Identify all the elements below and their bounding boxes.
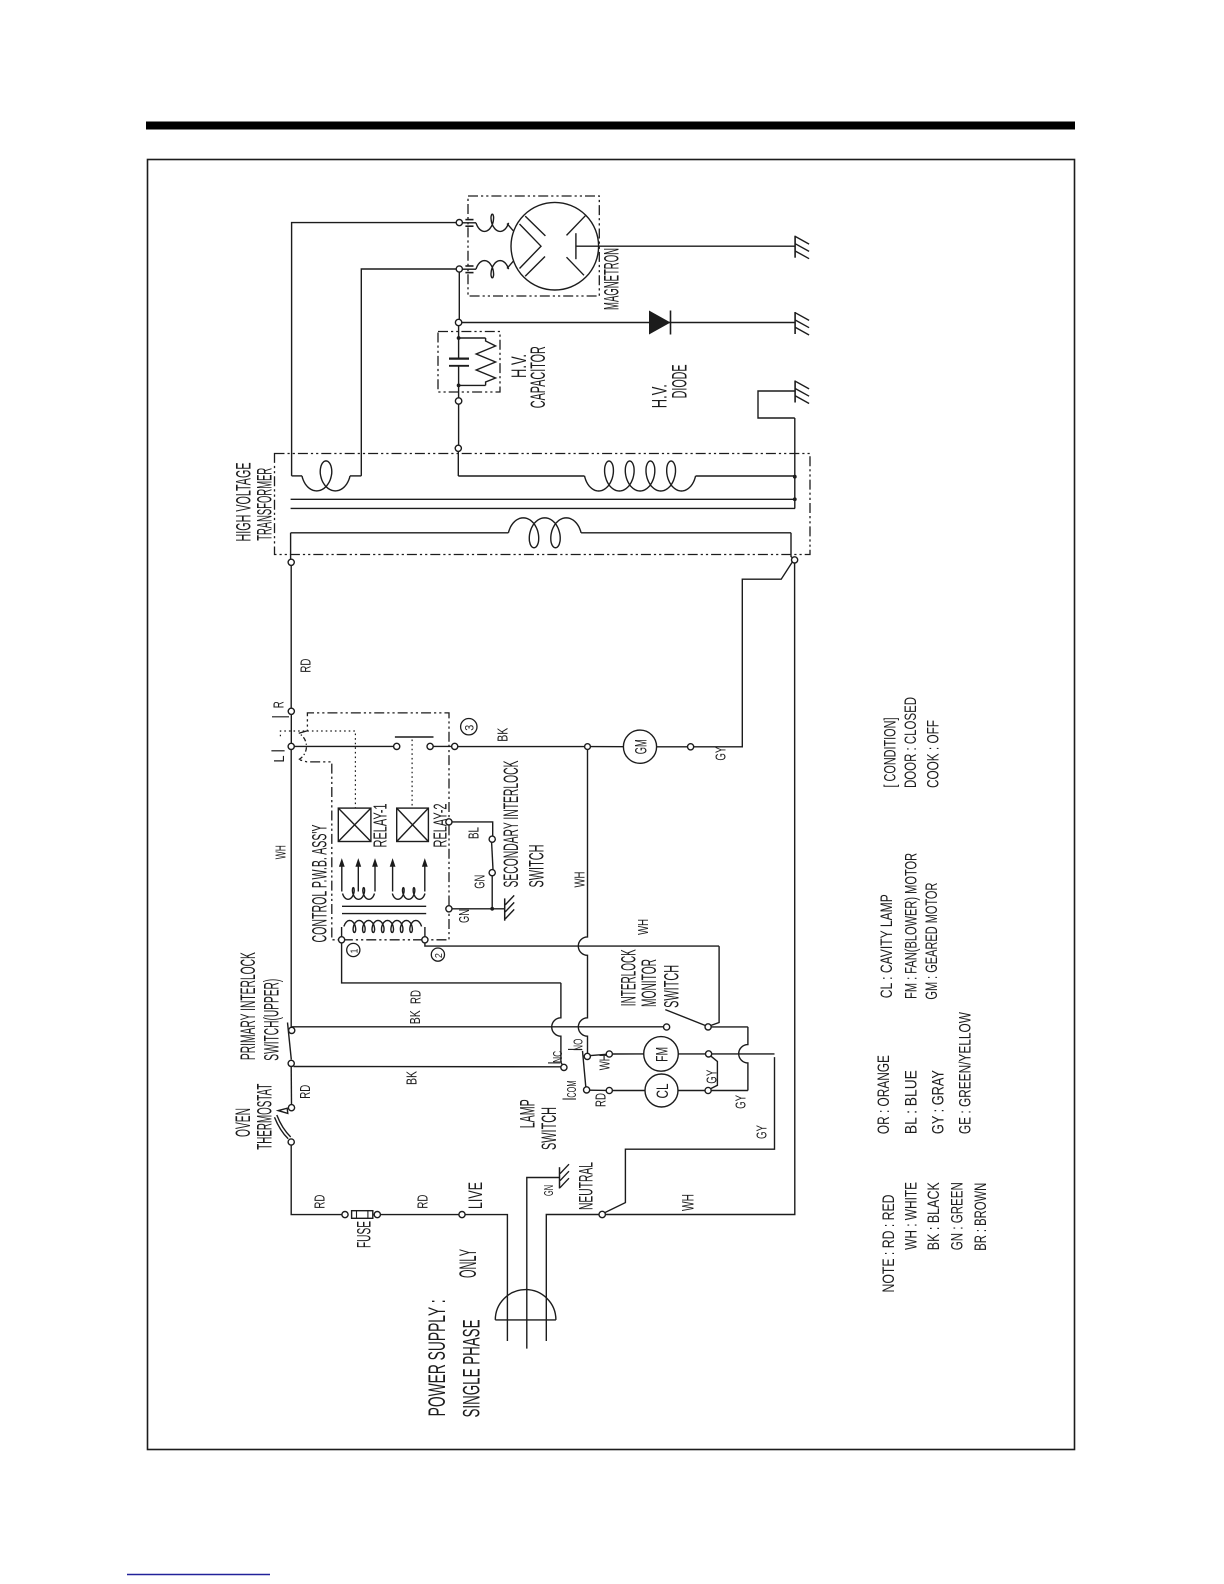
svg-text:HIGH VOLTAGE: HIGH VOLTAGE: [233, 463, 256, 542]
terminal 2 circle: [422, 937, 428, 943]
relay-1 dotted control line: [280, 731, 355, 808]
fan motor FM: [644, 1037, 679, 1072]
svg-text:WH: WH: [273, 845, 290, 859]
svg-text:MAGNETRON: MAGNETRON: [601, 248, 624, 310]
secondary interlock contact bottom: [489, 870, 495, 876]
relay R2 box: [397, 808, 429, 841]
svg-text:1: 1: [349, 948, 360, 953]
svg-text:BL: BL: [465, 827, 482, 839]
svg-text:SWITCH(UPPER): SWITCH(UPPER): [261, 979, 284, 1061]
svg-text:PRIMARY INTERLOCK: PRIMARY INTERLOCK: [237, 952, 260, 1060]
NEUTRAL node circle: [599, 1211, 605, 1217]
junction node (WH drop): [585, 744, 591, 750]
svg-text:BK: BK: [495, 728, 512, 742]
svg-text:THERMOSTAT: THERMOSTAT: [254, 1084, 277, 1150]
svg-text:GM: GM: [631, 739, 650, 754]
interlock monitor contact right: [705, 1024, 711, 1030]
BK line 1 (upper contact to interlock monitor): [291, 1026, 663, 1028]
wire thermostat to LIVE line: [291, 1145, 342, 1215]
CL terminal circle left: [606, 1087, 612, 1093]
BL wire: [452, 822, 493, 836]
primary right terminal wire: [791, 533, 793, 558]
svg-text:RD: RD: [311, 1194, 328, 1208]
primary interlock contact top: [289, 1027, 295, 1033]
H.V. diode symbol: [649, 311, 671, 335]
svg-text:WH: WH: [679, 1194, 698, 1211]
secondary 2 arrows: [392, 866, 394, 892]
svg-text:RD: RD: [298, 658, 315, 672]
svg-text:[ CONDITION]: [ CONDITION]: [881, 718, 900, 788]
CL wire right: [678, 1090, 705, 1092]
wire F1 to transformer filament winding: [292, 223, 457, 454]
ground (magnetron antenna): [794, 236, 796, 258]
RD wire from terminal 1: [342, 943, 561, 983]
ground (diode): [794, 312, 796, 334]
svg-text:RELAY-2: RELAY-2: [431, 804, 451, 848]
neutral diagonal to FM return: [605, 1057, 775, 1213]
circled 3 label: [461, 719, 477, 735]
wire L to relay contact: [294, 745, 393, 747]
FM wire right: [678, 1053, 705, 1055]
thermostat blade arcs: [277, 1115, 291, 1137]
svg-text:GM : GEARED MOTOR: GM : GEARED MOTOR: [922, 883, 941, 1000]
NEUTRAL wire left: [546, 1215, 599, 1342]
GN wire to ground: [452, 908, 505, 910]
svg-text:WH: WH: [635, 919, 652, 935]
cavity lamp CL: [645, 1074, 678, 1107]
capacitor plates: [458, 338, 460, 359]
control transformer primary coil: [341, 927, 343, 937]
svg-text:RD: RD: [297, 1085, 314, 1099]
interlock monitor drop with hop over FM: [739, 1027, 748, 1091]
svg-text:TRANSFORMER: TRANSFORMER: [254, 468, 277, 541]
FM wire left: [612, 1053, 643, 1055]
wire R to L: [290, 714, 292, 743]
wire F2 horizontal to transformer: [361, 269, 456, 476]
svg-text:LAMP: LAMP: [517, 1099, 540, 1128]
svg-text:GN: GN: [456, 909, 473, 923]
CL wire left: [612, 1090, 645, 1092]
magnetron filament choke L2: [462, 268, 476, 270]
control transformer secondary 2 coil: [392, 888, 425, 900]
wire L down to primary interlock: [290, 750, 292, 1028]
svg-text:COOK : OFF: COOK : OFF: [924, 720, 943, 788]
svg-text:CL: CL: [653, 1084, 672, 1099]
circled 2 label: [431, 948, 444, 961]
CL wire to interlock monitor drop: [711, 1090, 748, 1092]
label COM: [563, 1098, 577, 1100]
svg-text:GY: GY: [713, 747, 730, 761]
svg-text:RD: RD: [407, 990, 424, 1004]
svg-text:SWITCH: SWITCH: [538, 1107, 561, 1150]
magnetron cathode: [575, 233, 577, 259]
WH drop to interlock monitor: [710, 946, 719, 1026]
footer rule: [127, 1574, 270, 1576]
ground (transformer): [794, 381, 796, 403]
relay R1 box: [338, 808, 371, 841]
interlock monitor contact left: [664, 1024, 670, 1030]
svg-text:BK: BK: [407, 1010, 424, 1024]
secondary interlock blade: [492, 842, 493, 869]
magnetron box (dash-dot): [468, 196, 599, 296]
svg-text:OR : ORANGE: OR : ORANGE: [874, 1055, 893, 1134]
terminal BL circle on box edge: [446, 819, 452, 825]
svg-text:FM: FM: [652, 1047, 671, 1062]
ground (mains earth): [559, 1167, 561, 1188]
svg-text:GY: GY: [754, 1125, 771, 1139]
svg-text:RD: RD: [414, 1194, 431, 1208]
fuse body: [352, 1211, 373, 1219]
schematic border frame: [148, 160, 1075, 1450]
lamp NO contact: [584, 1053, 590, 1059]
relay contact circle right: [427, 743, 433, 749]
FM terminal circle right: [706, 1051, 712, 1057]
svg-text:FM : FAN(BLOWER) MOTOR: FM : FAN(BLOWER) MOTOR: [902, 853, 921, 999]
transformer filament winding: [291, 454, 293, 476]
svg-text:2: 2: [434, 953, 445, 958]
svg-text:NC: NC: [550, 1051, 565, 1063]
interlock monitor blade: [665, 1010, 705, 1026]
svg-text:L: L: [271, 756, 288, 763]
ground (transformer) feed: [794, 418, 796, 508]
bleeder resistor link bottom: [459, 384, 486, 386]
fuse terminal right: [374, 1212, 380, 1218]
primary interlock contact bottom: [288, 1060, 294, 1066]
wire interlock to thermostat: [290, 1067, 292, 1105]
transformer core lines: [291, 498, 795, 500]
svg-text:SINGLE PHASE: SINGLE PHASE: [458, 1320, 485, 1418]
diode wire: [462, 322, 795, 324]
svg-text:BL : BLUE: BL : BLUE: [901, 1070, 920, 1134]
svg-text:BK: BK: [404, 1071, 421, 1085]
FM jog to CL line: [711, 1056, 718, 1088]
svg-text:DIODE: DIODE: [669, 364, 692, 398]
svg-text:GN: GN: [472, 875, 489, 889]
svg-text:RELAY-1: RELAY-1: [371, 804, 391, 848]
oven thermostat contact bottom: [288, 1139, 294, 1145]
circled 1 label: [347, 943, 360, 956]
wire primary-left down to R terminal: [290, 565, 292, 708]
svg-text:FUSE: FUSE: [355, 1221, 376, 1248]
COM to CL wire: [590, 1089, 607, 1091]
wire GM right: [657, 746, 688, 748]
relay-2 dashed actuator line: [411, 740, 413, 809]
bleeder resistor link top: [457, 336, 461, 340]
svg-text:SWITCH: SWITCH: [526, 845, 549, 888]
svg-text:BR : BROWN: BR : BROWN: [971, 1183, 990, 1251]
FM wire to GY bus: [712, 1053, 775, 1055]
control transformer core: [342, 905, 426, 907]
lamp NC contact: [561, 1064, 567, 1070]
svg-text:POWER SUPPLY :: POWER SUPPLY :: [424, 1299, 451, 1416]
terminal R: [288, 708, 294, 714]
svg-text:CAPACITOR: CAPACITOR: [527, 346, 550, 408]
FM terminal circle left: [606, 1051, 612, 1057]
terminal 1 circle: [339, 937, 345, 943]
svg-text:COM: COM: [564, 1081, 579, 1098]
terminal L (node): [288, 743, 294, 749]
NO to FM wire: [590, 1054, 606, 1055]
lamp COM contact: [584, 1087, 590, 1093]
LIVE node circle: [459, 1212, 465, 1218]
relay contact bar: [395, 736, 434, 738]
node C (HV winding tap): [455, 445, 461, 451]
wire to GN junction: [491, 876, 493, 909]
svg-text:SWITCH: SWITCH: [661, 965, 684, 1008]
WH bus (right vertical): [605, 563, 795, 1215]
svg-text:LIVE: LIVE: [466, 1182, 487, 1209]
node A (cap top): [455, 319, 461, 325]
svg-text:MONITOR: MONITOR: [638, 959, 661, 1007]
svg-text:CONTROL P.W.B. ASS'Y: CONTROL P.W.B. ASS'Y: [308, 825, 331, 943]
magnetron pole pieces: [520, 224, 542, 269]
svg-text:GY: GY: [733, 1095, 750, 1109]
wire fuse to LIVE node: [380, 1214, 459, 1216]
svg-text:3: 3: [462, 725, 476, 731]
WH wire from terminal 2: [425, 943, 719, 946]
svg-text:NOTE : RD : RED: NOTE : RD : RED: [879, 1195, 898, 1293]
svg-text:GY : GRAY: GY : GRAY: [928, 1070, 947, 1134]
svg-text:NEUTRAL: NEUTRAL: [577, 1162, 598, 1210]
svg-text:CL : CAVITY LAMP: CL : CAVITY LAMP: [877, 894, 896, 998]
primary interlock blade: [288, 1023, 292, 1060]
relay contact circle left: [394, 743, 400, 749]
GM terminal circle: [688, 744, 694, 750]
wire node A into cap: [458, 326, 460, 338]
control PWB box (dash-dot with notch): [299, 713, 449, 940]
svg-text:WH: WH: [572, 872, 589, 888]
svg-text:ONLY: ONLY: [455, 1249, 482, 1278]
secondary 1 arrows: [341, 866, 343, 892]
node L-top (primary left terminal): [288, 559, 294, 565]
thermostat sensor triangle: [278, 1108, 288, 1113]
primary left terminal wire: [290, 533, 292, 559]
svg-text:RD: RD: [592, 1093, 609, 1107]
lamp blade: [583, 1051, 586, 1087]
svg-text:GN: GN: [541, 1185, 556, 1196]
high voltage transformer box (dash-dot): [275, 454, 811, 555]
magnetron antenna wire: [576, 245, 795, 247]
svg-text:SECONDARY INTERLOCK: SECONDARY INTERLOCK: [500, 761, 523, 888]
transformer HV secondary winding: [458, 475, 584, 477]
wire GM to transformer node: [694, 562, 793, 747]
H.V. capacitor box (dash-dot): [438, 332, 500, 393]
ground (secondary interlock GN): [504, 898, 506, 920]
secondary interlock contact top: [489, 836, 495, 842]
CL terminal circle right: [705, 1087, 711, 1093]
wire terminal3 to GM: [458, 746, 585, 748]
node (primary right terminal): [792, 557, 798, 563]
node B (cap bottom): [458, 385, 460, 398]
terminal 3 circle: [452, 743, 458, 749]
svg-text:GE : GREEN/YELLOW: GE : GREEN/YELLOW: [955, 1012, 974, 1134]
RD drop with hop over BK1: [552, 983, 563, 1065]
oven thermostat contact top: [288, 1105, 294, 1111]
svg-text:GN : GREEN: GN : GREEN: [948, 1182, 967, 1250]
plug dome: [495, 1290, 556, 1320]
LIVE wire to plug pin: [465, 1215, 507, 1341]
control transformer secondary 1 coil: [343, 888, 375, 900]
magnetron filament terminal F2: [456, 266, 462, 272]
svg-text:GY: GY: [704, 1070, 721, 1084]
bleeder resistor zigzag: [476, 338, 495, 385]
svg-text:OVEN: OVEN: [232, 1108, 255, 1137]
svg-text:DOOR : CLOSED: DOOR : CLOSED: [901, 697, 920, 788]
svg-text:WH : WHITE: WH : WHITE: [902, 1182, 921, 1250]
magnetron filament choke L1: [462, 222, 476, 224]
plug pin GN: [527, 1178, 560, 1349]
magnetron circle: [511, 202, 599, 290]
header bar: [146, 122, 1075, 130]
fuse terminal left: [342, 1212, 348, 1218]
svg-text:R: R: [271, 701, 288, 708]
magnetron filament terminal F1: [456, 220, 462, 226]
wire contact to terminal 3: [433, 745, 451, 747]
geared motor GM: [623, 730, 656, 763]
svg-text:BK : BLACK: BK : BLACK: [924, 1182, 943, 1250]
WH drop from BK junction with hops: [578, 750, 587, 1054]
wire node B to transformer HV winding: [458, 404, 460, 445]
transformer primary winding: [291, 532, 509, 534]
BK line 2 (lower contact to lamp NC): [294, 1066, 561, 1068]
terminal GN circle on box edge: [446, 906, 452, 912]
wire F2 down to H.V. node: [458, 272, 460, 319]
interlock monitor wire: [711, 1026, 748, 1028]
